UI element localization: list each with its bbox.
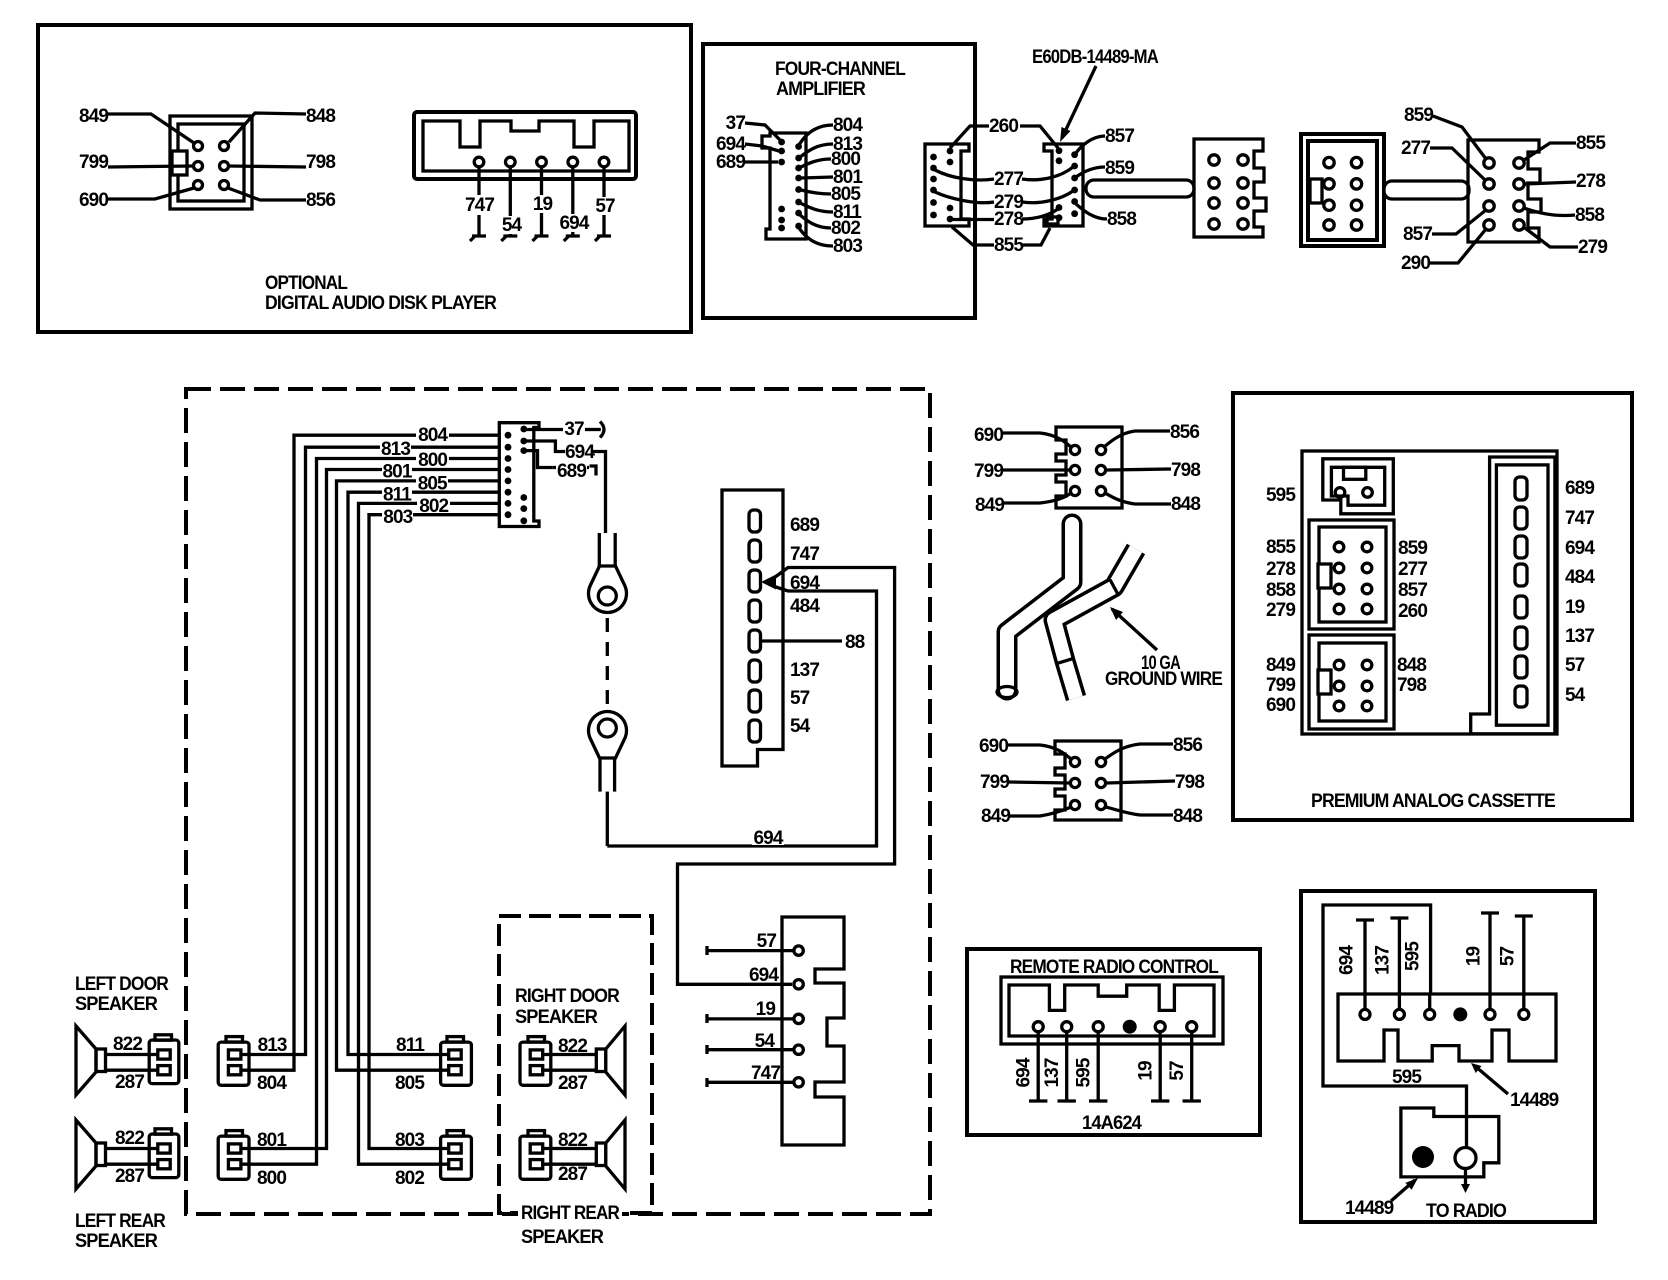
svg-text:856: 856 bbox=[1170, 422, 1199, 443]
svg-text:277: 277 bbox=[1398, 559, 1427, 580]
svg-text:AMPLIFIER: AMPLIFIER bbox=[776, 79, 866, 100]
svg-text:690: 690 bbox=[974, 425, 1003, 446]
svg-text:E60DB-14489-MA: E60DB-14489-MA bbox=[1032, 47, 1159, 68]
svg-text:TO RADIO: TO RADIO bbox=[1426, 1201, 1506, 1222]
svg-text:277: 277 bbox=[994, 169, 1023, 190]
svg-text:694: 694 bbox=[1337, 945, 1358, 975]
svg-text:857: 857 bbox=[1105, 126, 1134, 147]
svg-text:848: 848 bbox=[1397, 655, 1426, 676]
svg-text:595: 595 bbox=[1392, 1067, 1422, 1088]
svg-text:803: 803 bbox=[833, 236, 862, 257]
svg-text:747: 747 bbox=[790, 544, 819, 565]
svg-text:804: 804 bbox=[418, 425, 448, 446]
svg-text:822: 822 bbox=[113, 1034, 142, 1055]
svg-text:747: 747 bbox=[465, 195, 494, 216]
svg-text:858: 858 bbox=[1107, 209, 1136, 230]
svg-text:855: 855 bbox=[1576, 133, 1606, 154]
svg-text:SPEAKER: SPEAKER bbox=[521, 1227, 604, 1248]
svg-text:LEFT REAR: LEFT REAR bbox=[75, 1211, 166, 1232]
svg-text:857: 857 bbox=[1403, 224, 1432, 245]
svg-text:277: 277 bbox=[1401, 138, 1430, 159]
svg-text:137: 137 bbox=[1373, 946, 1394, 975]
svg-text:689: 689 bbox=[716, 152, 745, 173]
svg-text:856: 856 bbox=[306, 190, 335, 211]
svg-text:799: 799 bbox=[79, 152, 108, 173]
svg-text:805: 805 bbox=[418, 474, 448, 495]
svg-text:595: 595 bbox=[1266, 485, 1296, 506]
svg-text:689: 689 bbox=[1565, 478, 1594, 499]
svg-text:848: 848 bbox=[1171, 494, 1200, 515]
svg-text:RIGHT REAR: RIGHT REAR bbox=[521, 1203, 620, 1224]
svg-text:811: 811 bbox=[396, 1035, 425, 1056]
svg-text:802: 802 bbox=[419, 496, 448, 517]
svg-text:PREMIUM ANALOG CASSETTE: PREMIUM ANALOG CASSETTE bbox=[1311, 791, 1555, 812]
svg-text:689: 689 bbox=[790, 515, 819, 536]
svg-text:54: 54 bbox=[755, 1031, 776, 1052]
svg-text:14489: 14489 bbox=[1345, 1198, 1394, 1219]
svg-text:849: 849 bbox=[79, 106, 108, 127]
svg-text:595: 595 bbox=[1074, 1057, 1095, 1087]
svg-text:260: 260 bbox=[989, 116, 1018, 137]
svg-text:799: 799 bbox=[980, 772, 1009, 793]
svg-text:690: 690 bbox=[979, 736, 1008, 757]
svg-text:822: 822 bbox=[558, 1036, 587, 1057]
svg-text:595: 595 bbox=[1403, 941, 1424, 971]
svg-text:802: 802 bbox=[395, 1168, 424, 1189]
svg-text:OPTIONAL: OPTIONAL bbox=[265, 273, 348, 294]
svg-text:278: 278 bbox=[1266, 559, 1295, 580]
svg-text:694: 694 bbox=[565, 442, 595, 463]
svg-text:811: 811 bbox=[383, 485, 412, 506]
svg-text:798: 798 bbox=[1175, 772, 1204, 793]
svg-text:SPEAKER: SPEAKER bbox=[75, 994, 158, 1015]
svg-text:799: 799 bbox=[974, 461, 1003, 482]
svg-text:287: 287 bbox=[115, 1072, 144, 1093]
svg-text:54: 54 bbox=[1565, 685, 1586, 706]
svg-text:689: 689 bbox=[557, 461, 586, 482]
svg-text:19: 19 bbox=[1565, 597, 1585, 618]
svg-text:813: 813 bbox=[381, 439, 410, 460]
svg-text:19: 19 bbox=[1136, 1061, 1157, 1081]
svg-text:813: 813 bbox=[258, 1035, 287, 1056]
svg-text:747: 747 bbox=[1565, 508, 1594, 529]
svg-text:279: 279 bbox=[1266, 600, 1295, 621]
svg-text:19: 19 bbox=[756, 999, 776, 1020]
svg-text:694: 694 bbox=[1014, 1057, 1035, 1087]
svg-text:849: 849 bbox=[975, 495, 1004, 516]
svg-text:855: 855 bbox=[1266, 537, 1296, 558]
svg-text:37: 37 bbox=[726, 113, 746, 134]
svg-text:137: 137 bbox=[790, 660, 819, 681]
svg-text:57: 57 bbox=[1498, 947, 1519, 967]
svg-text:799: 799 bbox=[1266, 675, 1295, 696]
svg-text:848: 848 bbox=[1173, 806, 1202, 827]
svg-text:803: 803 bbox=[395, 1130, 424, 1151]
svg-text:804: 804 bbox=[257, 1073, 287, 1094]
svg-text:SPEAKER: SPEAKER bbox=[515, 1007, 598, 1028]
svg-text:804: 804 bbox=[833, 115, 863, 136]
svg-text:14A624: 14A624 bbox=[1082, 1113, 1142, 1134]
svg-text:DIGITAL AUDIO DISK PLAYER: DIGITAL AUDIO DISK PLAYER bbox=[265, 293, 497, 314]
svg-text:857: 857 bbox=[1398, 580, 1427, 601]
svg-text:859: 859 bbox=[1398, 538, 1427, 559]
svg-text:RIGHT DOOR: RIGHT DOOR bbox=[515, 986, 620, 1007]
svg-text:801: 801 bbox=[257, 1130, 287, 1151]
svg-text:798: 798 bbox=[306, 152, 335, 173]
svg-text:88: 88 bbox=[845, 632, 865, 653]
svg-text:57: 57 bbox=[595, 196, 615, 217]
svg-text:14489: 14489 bbox=[1510, 1090, 1559, 1111]
svg-text:137: 137 bbox=[1042, 1058, 1063, 1087]
svg-text:287: 287 bbox=[558, 1073, 587, 1094]
svg-text:57: 57 bbox=[1565, 655, 1585, 676]
svg-text:803: 803 bbox=[383, 507, 412, 528]
svg-text:849: 849 bbox=[981, 806, 1010, 827]
svg-text:694: 694 bbox=[749, 965, 779, 986]
svg-text:278: 278 bbox=[1576, 171, 1605, 192]
svg-text:FOUR-CHANNEL: FOUR-CHANNEL bbox=[775, 59, 906, 80]
svg-text:800: 800 bbox=[257, 1168, 286, 1189]
svg-text:855: 855 bbox=[994, 235, 1024, 256]
svg-text:694: 694 bbox=[753, 828, 783, 849]
svg-text:57: 57 bbox=[790, 688, 810, 709]
svg-text:19: 19 bbox=[1464, 947, 1485, 967]
svg-text:694: 694 bbox=[559, 213, 589, 234]
svg-text:287: 287 bbox=[558, 1164, 587, 1185]
svg-text:859: 859 bbox=[1404, 105, 1433, 126]
svg-text:REMOTE RADIO CONTROL: REMOTE RADIO CONTROL bbox=[1010, 957, 1219, 978]
svg-text:690: 690 bbox=[1266, 695, 1295, 716]
svg-text:798: 798 bbox=[1171, 460, 1200, 481]
svg-text:848: 848 bbox=[306, 106, 335, 127]
svg-text:858: 858 bbox=[1575, 205, 1604, 226]
svg-text:LEFT DOOR: LEFT DOOR bbox=[75, 974, 169, 995]
svg-text:690: 690 bbox=[79, 190, 108, 211]
svg-text:859: 859 bbox=[1105, 158, 1134, 179]
svg-text:805: 805 bbox=[395, 1073, 425, 1094]
svg-text:57: 57 bbox=[757, 931, 777, 952]
svg-text:849: 849 bbox=[1266, 655, 1295, 676]
svg-text:858: 858 bbox=[1266, 580, 1295, 601]
svg-text:19: 19 bbox=[533, 194, 553, 215]
svg-text:54: 54 bbox=[502, 215, 523, 236]
svg-text:279: 279 bbox=[1578, 237, 1607, 258]
svg-text:GROUND WIRE: GROUND WIRE bbox=[1105, 669, 1222, 690]
svg-text:287: 287 bbox=[115, 1166, 144, 1187]
svg-text:694: 694 bbox=[1565, 538, 1595, 559]
svg-text:801: 801 bbox=[382, 462, 412, 483]
svg-text:278: 278 bbox=[994, 209, 1023, 230]
svg-text:747: 747 bbox=[751, 1063, 780, 1084]
svg-text:260: 260 bbox=[1398, 601, 1427, 622]
svg-text:57: 57 bbox=[1167, 1061, 1188, 1081]
svg-text:800: 800 bbox=[418, 450, 447, 471]
svg-text:484: 484 bbox=[790, 596, 820, 617]
svg-text:856: 856 bbox=[1173, 735, 1202, 756]
svg-text:37: 37 bbox=[564, 419, 584, 440]
svg-text:54: 54 bbox=[790, 716, 811, 737]
svg-text:290: 290 bbox=[1401, 253, 1430, 274]
svg-text:137: 137 bbox=[1565, 626, 1594, 647]
svg-text:SPEAKER: SPEAKER bbox=[75, 1231, 158, 1252]
svg-text:798: 798 bbox=[1397, 675, 1426, 696]
svg-text:484: 484 bbox=[1565, 567, 1595, 588]
svg-text:822: 822 bbox=[558, 1130, 587, 1151]
svg-text:822: 822 bbox=[115, 1128, 144, 1149]
